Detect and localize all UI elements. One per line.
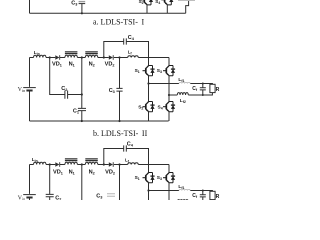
svg-text:a. LDLS-TSI- I: a. LDLS-TSI- I	[93, 17, 144, 26]
wire : main top wire	[30, 57, 170, 59]
wire : circuit a faint cropped output elements	[178, 0, 195, 2]
svg-text:C4: C4	[127, 141, 134, 147]
svg-text:C3: C3	[71, 0, 77, 6]
svg-text:C3: C3	[109, 88, 115, 94]
svg-text:Lf1: Lf1	[178, 184, 184, 190]
svg-text:C4: C4	[128, 35, 135, 41]
inductor Lf (dc-link)	[128, 56, 139, 58]
svg-text:R: R	[216, 87, 220, 93]
svg-text:VD1: VD1	[52, 62, 62, 68]
svg-text:C2: C2	[61, 86, 67, 92]
capacitor C3 branch (c)	[107, 165, 120, 201]
winding N1	[65, 52, 78, 58]
capacitor Cf (c, bottom-cropped)	[200, 190, 206, 201]
svg-text:Lf: Lf	[128, 50, 133, 56]
node : junction Lin/VD1/C2	[49, 56, 51, 58]
wire : circuit a left riser to Vin (cropped)	[29, 0, 31, 13]
transistor S1 (c)	[143, 165, 155, 191]
diode VD2 (c)	[109, 162, 113, 167]
wire : main top wire (c)	[30, 164, 170, 166]
svg-text:Lf1: Lf1	[178, 77, 184, 83]
capacitor C2 branch (c)	[46, 165, 54, 201]
svg-text:S3: S3	[157, 68, 162, 74]
svg-text:N1: N1	[69, 170, 75, 176]
winding N1 (c)	[65, 159, 78, 165]
node : left leg output tap (c)	[147, 189, 149, 191]
transistor S2	[143, 84, 155, 122]
node : junction N2/VD2/C4	[103, 56, 105, 58]
capacitor C4 branch (c)	[104, 145, 149, 164]
wire : output top rail	[149, 83, 213, 86]
node : junction VD2/C3	[118, 56, 120, 58]
capacitor C3 (circuit a, top-cropped)	[79, 2, 86, 15]
inductor Lf2 (c, bottom-cropped coils)	[177, 200, 188, 202]
inductor Lin (c)	[34, 162, 47, 164]
wire : left leg down to cropped S2 (c)	[148, 191, 150, 201]
capacitor C4 branch	[104, 38, 149, 57]
wire : output bottom rail	[169, 93, 212, 95]
svg-text:VD2: VD2	[105, 170, 115, 176]
node : junction N1/N2 centre tap (c)	[81, 163, 83, 165]
node : junction C1/bottom rail	[81, 120, 83, 122]
inductor Lf1 (faint coils)	[179, 82, 190, 83]
winding N2	[85, 52, 98, 58]
inductor Lf2	[177, 93, 188, 95]
inductor Lf1 faint coils (c)	[179, 189, 190, 190]
svg-text:S4: S4	[155, 0, 160, 5]
wire : circuit a bottom rail	[30, 12, 186, 14]
svg-text:S3: S3	[157, 175, 162, 181]
node : left leg output tap	[147, 82, 149, 84]
transistor S3 (c)	[163, 165, 175, 201]
transistor S4	[163, 95, 175, 121]
transistor S3	[163, 58, 175, 96]
winding N2 (c)	[85, 159, 98, 165]
svg-text:N1: N1	[69, 62, 75, 68]
node : junction VD2/C3 (c)	[118, 163, 120, 165]
wire : bottom rail	[30, 120, 169, 122]
wire : output top rail (c)	[149, 190, 213, 193]
svg-text:S2: S2	[138, 105, 143, 111]
resistor R load (c, bottom-cropped)	[210, 191, 215, 199]
diode VD2	[109, 55, 113, 60]
source Vin branch (c)	[23, 165, 36, 201]
svg-text:N2: N2	[89, 62, 95, 68]
capacitor C3 branch	[116, 58, 122, 122]
node : junction N1/N2 centre tap	[81, 56, 83, 58]
inductor Lin	[34, 55, 47, 57]
resistor R load	[210, 84, 215, 92]
transistor S2 (circuit a, cropped)	[141, 0, 153, 13]
transistor S1	[143, 58, 155, 84]
svg-text:Cf: Cf	[192, 193, 198, 199]
svg-text:Cf: Cf	[192, 86, 198, 92]
node : junction C3/bottom rail	[118, 120, 120, 122]
node : junction Lin/VD1/C2 (c)	[49, 163, 51, 165]
diode VD1	[55, 55, 59, 60]
svg-text:N2: N2	[89, 170, 95, 176]
source Vin branch	[23, 58, 36, 122]
svg-text:VD1: VD1	[53, 170, 63, 176]
svg-text:Vin: Vin	[18, 87, 25, 93]
node : junction N2/VD2/C4 (c)	[103, 163, 105, 165]
inductor Lf dc-link (c)	[128, 163, 139, 165]
svg-text:b. LDLS-TSI- II: b. LDLS-TSI- II	[93, 129, 148, 138]
node : junction C2/C1	[81, 93, 83, 95]
svg-text:Lin: Lin	[32, 157, 38, 163]
wire : circuit a right hook up to load (cropped)	[186, 0, 189, 13]
capacitor C1 branch	[78, 58, 86, 122]
svg-text:Lf2: Lf2	[180, 98, 186, 104]
svg-text:VD2: VD2	[105, 62, 115, 68]
transistor S4 (circuit a, cropped)	[161, 0, 173, 13]
svg-text:S1: S1	[135, 175, 140, 181]
svg-text:C1: C1	[73, 108, 79, 114]
svg-text:C2: C2	[55, 195, 61, 200]
node : right leg output tap	[168, 94, 170, 96]
capacitor C2 branch	[50, 58, 82, 99]
capacitor Cf	[200, 83, 206, 97]
svg-text:S2: S2	[139, 0, 144, 5]
wire : centre tap line to cropped C1 (c)	[81, 165, 83, 201]
svg-text:S4: S4	[158, 105, 163, 111]
svg-text:R: R	[216, 194, 220, 200]
svg-text:Vin: Vin	[18, 196, 25, 200]
svg-text:S1: S1	[135, 68, 140, 74]
svg-text:C3: C3	[96, 193, 103, 199]
diode VD1 (c)	[55, 162, 59, 167]
